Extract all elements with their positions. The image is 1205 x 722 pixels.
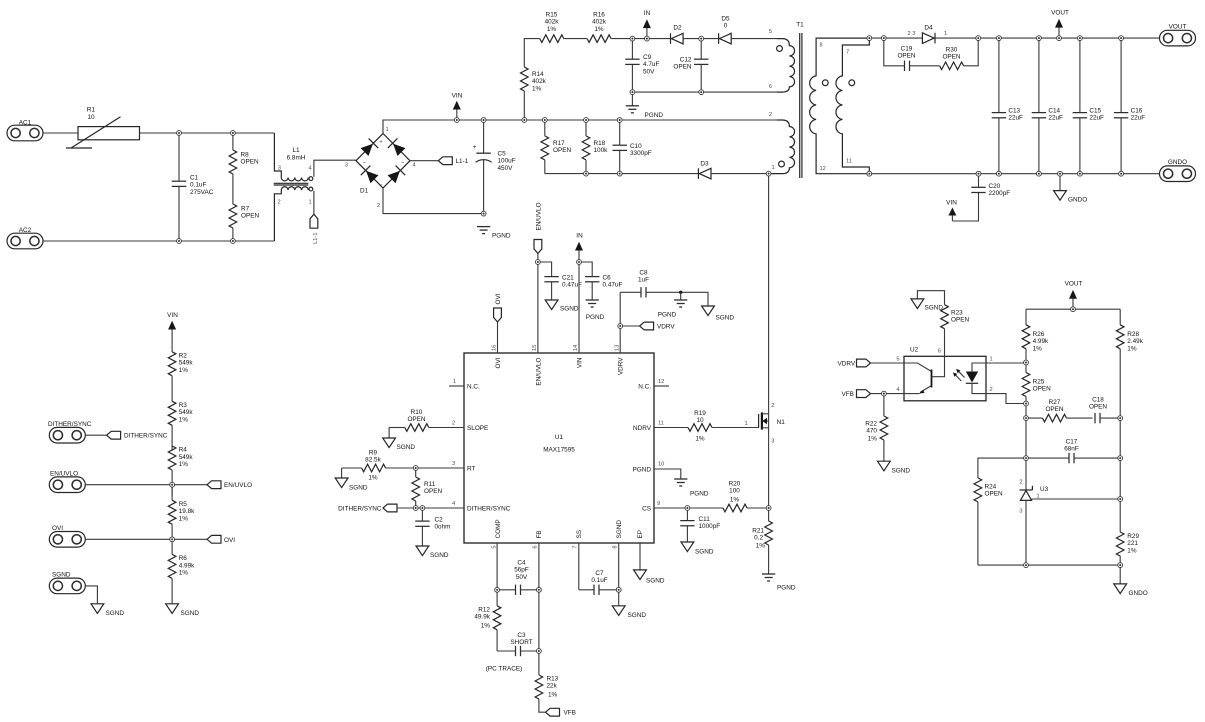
- pin 4 DITHER/SYNC U1: [452, 501, 511, 512]
- ground PGND below C5: [477, 227, 511, 240]
- svg-text:VIN: VIN: [452, 93, 463, 100]
- svg-text:1%: 1%: [695, 436, 705, 443]
- svg-text:6: 6: [938, 349, 941, 355]
- pin 2 SLOPE U1: [452, 421, 488, 432]
- svg-text:R5: R5: [179, 501, 188, 508]
- svg-text:1: 1: [990, 357, 993, 363]
- svg-text:1000pF: 1000pF: [699, 523, 721, 530]
- svg-text:50V: 50V: [516, 574, 528, 581]
- svg-text:C5: C5: [498, 151, 507, 158]
- svg-text:SGND: SGND: [716, 315, 735, 322]
- svg-text:L1: L1: [292, 147, 300, 154]
- resistor R8 OPEN: [229, 133, 259, 204]
- svg-text:1%: 1%: [179, 416, 189, 423]
- pin 16 OVI U1: [492, 345, 503, 369]
- svg-text:R8: R8: [241, 152, 250, 159]
- svg-text:3: 3: [278, 166, 281, 172]
- svg-text:1uF: 1uF: [638, 277, 649, 284]
- svg-text:2: 2: [377, 203, 380, 209]
- svg-text:C21: C21: [562, 275, 574, 282]
- svg-text:C3: C3: [517, 632, 526, 639]
- wire bridge pin2 to PGND rail: [383, 188, 484, 214]
- pin 7 SS U1: [572, 530, 583, 549]
- svg-text:100uF: 100uF: [498, 158, 516, 165]
- resistor R12 49.9k 1%: [474, 590, 501, 651]
- ground SGND below pin8: [612, 606, 646, 619]
- resistor R25 OPEN: [1022, 363, 1051, 419]
- svg-text:VDRV: VDRV: [657, 324, 675, 331]
- svg-text:5: 5: [896, 357, 899, 363]
- svg-text:1%: 1%: [548, 691, 558, 698]
- svg-text:3: 3: [1019, 509, 1022, 515]
- svg-text:1%: 1%: [756, 543, 766, 550]
- resistor R5 19.8k 1%: [168, 485, 195, 540]
- svg-text:N1: N1: [777, 419, 786, 426]
- svg-text:IN: IN: [576, 233, 583, 240]
- wire feedback node down: [1025, 418, 1027, 485]
- svg-text:PGND: PGND: [633, 466, 652, 473]
- svg-text:D2: D2: [673, 25, 682, 32]
- svg-text:R7: R7: [241, 206, 250, 213]
- svg-text:C4: C4: [517, 560, 526, 567]
- svg-text:GNDO: GNDO: [1168, 159, 1187, 166]
- transformer T1 secondary winding inner (pins 7-11): [836, 38, 869, 174]
- power flag IN at startup node: [643, 10, 651, 39]
- svg-text:11: 11: [658, 421, 664, 427]
- pin 6 FB U1: [533, 530, 544, 548]
- svg-text:OPEN: OPEN: [1045, 406, 1063, 413]
- power flag VIN divider top: [167, 312, 178, 352]
- net tag VFB at R13 bottom: [546, 708, 576, 716]
- svg-text:VDRV: VDRV: [838, 361, 856, 368]
- bridge rectifier D1: [345, 127, 416, 209]
- svg-text:4.99k: 4.99k: [1033, 338, 1049, 345]
- svg-text:C13: C13: [1008, 108, 1020, 115]
- svg-text:13: 13: [614, 345, 620, 351]
- svg-text:D4: D4: [924, 25, 933, 32]
- svg-text:82.5k: 82.5k: [365, 457, 381, 464]
- capacitor C7 0.1uF: [579, 570, 619, 595]
- svg-text:0.1uF: 0.1uF: [591, 577, 607, 584]
- svg-text:402k: 402k: [532, 78, 547, 85]
- connector GNDO: [1160, 159, 1196, 182]
- wire VDRV pin13 riser: [619, 292, 621, 353]
- resistor R17 OPEN: [541, 120, 571, 174]
- svg-text:3: 3: [452, 461, 455, 467]
- svg-text:470: 470: [866, 428, 877, 435]
- svg-text:VOUT: VOUT: [1051, 10, 1069, 17]
- svg-text:R1: R1: [87, 107, 96, 114]
- svg-text:SGND: SGND: [695, 549, 714, 556]
- svg-text:OPEN: OPEN: [897, 53, 915, 60]
- svg-text:DITHER/SYNC: DITHER/SYNC: [467, 505, 511, 512]
- wire AC2 to L1 bottom: [43, 240, 274, 242]
- svg-text:C11: C11: [699, 516, 711, 523]
- diode D4: [908, 25, 948, 44]
- capacitor C18 OPEN: [1089, 397, 1120, 424]
- wire SGND pin8 down: [618, 543, 620, 606]
- wire snubber bottom rail: [545, 173, 699, 175]
- capacitor C5 100uF 450V polarized: [473, 120, 516, 214]
- svg-text:R30: R30: [946, 47, 958, 54]
- svg-text:R13: R13: [547, 676, 559, 683]
- svg-text:C1: C1: [190, 175, 199, 182]
- svg-text:68nF: 68nF: [1064, 446, 1079, 453]
- svg-text:10: 10: [87, 114, 95, 121]
- svg-text:OVI: OVI: [52, 525, 63, 532]
- svg-text:R16: R16: [593, 12, 605, 19]
- svg-text:C8: C8: [639, 270, 648, 277]
- transformer T1 primary winding lower (pins 2-1): [769, 112, 795, 174]
- svg-text:MAX17595: MAX17595: [543, 447, 575, 454]
- svg-text:SGND: SGND: [349, 485, 368, 492]
- pin 11 NDRV U1: [633, 421, 664, 432]
- pin 14 VIN U1: [573, 345, 584, 368]
- svg-text:1: 1: [944, 31, 947, 37]
- ground SGND for R9: [335, 468, 368, 492]
- svg-text:OPEN: OPEN: [985, 491, 1003, 498]
- resistor R11 OPEN: [412, 468, 443, 508]
- svg-text:2: 2: [769, 112, 772, 118]
- power flag VIN on input rail: [452, 93, 463, 121]
- svg-text:2: 2: [278, 200, 281, 206]
- svg-text:49.9k: 49.9k: [474, 614, 490, 621]
- capacitor C14 22uF: [1032, 38, 1063, 174]
- capacitor C15 22uF: [1073, 38, 1104, 174]
- svg-text:402k: 402k: [592, 19, 607, 26]
- svg-text:DITHER/SYNC: DITHER/SYNC: [338, 505, 382, 512]
- svg-text:R23: R23: [951, 310, 963, 317]
- pin 10 PGND U1: [633, 462, 665, 474]
- svg-text:SGND: SGND: [616, 520, 623, 539]
- capacitor C10 3300pF: [613, 120, 652, 174]
- svg-text:GNDO: GNDO: [1129, 590, 1148, 597]
- svg-text:2.49k: 2.49k: [1127, 338, 1143, 345]
- svg-text:OVI: OVI: [495, 357, 502, 368]
- svg-text:1%: 1%: [594, 26, 604, 33]
- ground SGND right of C8: [702, 306, 735, 322]
- svg-text:1%: 1%: [1127, 345, 1137, 352]
- svg-text:3: 3: [771, 439, 774, 445]
- svg-text:-: -: [381, 181, 383, 187]
- svg-text:10: 10: [696, 417, 704, 424]
- svg-text:2: 2: [452, 421, 455, 427]
- svg-text:SGND: SGND: [925, 305, 944, 312]
- ground PGND at pin10: [654, 469, 709, 498]
- connector SGND: [49, 572, 85, 594]
- connector OVI: [49, 525, 172, 547]
- svg-text:402k: 402k: [545, 19, 560, 26]
- capacitor C4 56pF 50V: [497, 560, 539, 596]
- pin 15 EN/UVLO U1: [532, 345, 542, 386]
- wire C17 left branch to R24: [978, 458, 1026, 478]
- svg-text:1%: 1%: [179, 570, 189, 577]
- svg-text:1%: 1%: [179, 461, 189, 468]
- wire bridge pin4 to L1-1 tag: [410, 160, 438, 162]
- svg-text:VIN: VIN: [167, 312, 178, 319]
- svg-text:OVI: OVI: [495, 293, 502, 304]
- svg-text:22uF: 22uF: [1048, 115, 1063, 122]
- resistor R4 549k 1%: [168, 446, 193, 496]
- svg-text:2: 2: [771, 403, 774, 409]
- svg-text:C17: C17: [1066, 439, 1078, 446]
- svg-text:VDRV: VDRV: [618, 357, 625, 375]
- svg-text:VFB: VFB: [842, 391, 854, 398]
- resistor R30 OPEN (snubber): [910, 38, 979, 70]
- svg-text:EN/UVLO: EN/UVLO: [535, 202, 542, 230]
- svg-text:PGND: PGND: [777, 585, 796, 592]
- ground SGND below EP: [634, 543, 665, 585]
- svg-text:1%: 1%: [532, 85, 542, 92]
- svg-text:SGND: SGND: [628, 612, 647, 619]
- svg-text:SGND: SGND: [430, 552, 449, 559]
- net tag DITHER/SYNC at pin4: [338, 504, 464, 512]
- svg-text:C7: C7: [595, 570, 604, 577]
- pin 12 N.C. U1: [638, 379, 669, 390]
- capacitor C19 OPEN (snubber): [884, 38, 916, 71]
- svg-text:OPEN: OPEN: [673, 64, 691, 71]
- net tag OVI above pin16: [494, 293, 502, 353]
- svg-text:R3: R3: [179, 402, 188, 409]
- op-amp U1 MAX17595 body: [464, 353, 654, 543]
- svg-text:GNDO: GNDO: [1068, 197, 1087, 204]
- shunt regulator U3 TL431: [1019, 480, 1048, 566]
- svg-text:EP: EP: [637, 530, 644, 539]
- svg-text:SS: SS: [576, 530, 583, 539]
- svg-text:7: 7: [572, 546, 578, 549]
- svg-text:1%: 1%: [368, 475, 378, 482]
- svg-text:IN: IN: [644, 10, 651, 17]
- inductor L1 6.8mH common-mode choke: [274, 133, 313, 241]
- svg-text:8: 8: [820, 43, 823, 49]
- svg-text:1: 1: [745, 421, 748, 427]
- svg-text:SGND: SGND: [646, 578, 665, 585]
- pin 5 COMP U1: [492, 519, 502, 548]
- resistor R6 4.99k 1%: [168, 539, 195, 604]
- svg-text:549k: 549k: [179, 409, 194, 416]
- svg-text:15: 15: [532, 345, 538, 351]
- pin 9 CS U1: [642, 501, 660, 512]
- capacitor C16 22uF: [1114, 38, 1145, 174]
- svg-text:22uF: 22uF: [1089, 115, 1104, 122]
- svg-text:R6: R6: [179, 555, 188, 562]
- svg-text:VIN: VIN: [946, 200, 957, 207]
- transistor inside U2: [904, 356, 945, 393]
- svg-text:1%: 1%: [547, 26, 557, 33]
- connector VOUT: [1160, 24, 1196, 46]
- net tag L1-1 below choke: [310, 214, 319, 244]
- resistor R10 OPEN on SLOPE: [389, 409, 464, 431]
- svg-text:11: 11: [846, 159, 852, 165]
- transformer T1 core: [800, 33, 802, 178]
- svg-text:0.1uF: 0.1uF: [190, 182, 206, 189]
- svg-text:R29: R29: [1127, 533, 1139, 540]
- svg-text:AC1: AC1: [19, 119, 32, 126]
- svg-text:DITHER/SYNC: DITHER/SYNC: [124, 433, 168, 440]
- svg-text:22uF: 22uF: [1008, 115, 1023, 122]
- svg-text:T1: T1: [796, 22, 804, 29]
- svg-text:R12: R12: [478, 607, 490, 614]
- wire D5 to T1 pin5: [731, 38, 777, 40]
- svg-text:PGND: PGND: [645, 112, 664, 119]
- svg-text:N.C.: N.C.: [467, 383, 480, 390]
- svg-text:R25: R25: [1033, 379, 1045, 386]
- svg-text:EN/UVLO: EN/UVLO: [50, 471, 78, 478]
- capacitor C3 SHORT: [497, 632, 539, 656]
- svg-text:OPEN: OPEN: [553, 147, 571, 154]
- power flag VOUT feedback rail: [1026, 281, 1120, 310]
- svg-text:VFB: VFB: [564, 710, 576, 717]
- svg-text:4: 4: [452, 501, 455, 507]
- power flag IN above pin14: [575, 233, 583, 354]
- svg-text:6.8mH: 6.8mH: [287, 154, 306, 161]
- svg-text:3: 3: [345, 163, 348, 169]
- svg-text:1%: 1%: [179, 515, 189, 522]
- svg-text:2 3: 2 3: [908, 31, 916, 37]
- resistor R9 82.5k 1% on RT: [342, 450, 464, 482]
- svg-text:12: 12: [820, 166, 826, 172]
- ground PGND below C6: [586, 300, 605, 321]
- svg-text:C14: C14: [1048, 108, 1060, 115]
- capacitor C21 0.47uF: [538, 262, 582, 300]
- svg-text:1: 1: [772, 165, 775, 171]
- resistor R18 100k: [582, 120, 608, 174]
- wire L1 pin1 to tag: [313, 191, 315, 214]
- wire bridge pin1 to VIN rail: [383, 120, 777, 134]
- net tag VDRV to U2 pin5: [838, 359, 905, 367]
- svg-text:549k: 549k: [179, 360, 194, 367]
- wire L1 pin4 to bridge: [314, 160, 356, 177]
- wire U2 pin2 to divider: [986, 394, 1026, 404]
- svg-text:1%: 1%: [481, 622, 491, 629]
- wire secondary top rail: [869, 37, 922, 39]
- pin 8 SGND U1: [612, 520, 623, 549]
- transistor N1 nMOSFET: [759, 403, 786, 445]
- svg-text:R24: R24: [985, 484, 997, 491]
- net tag VDRV at pin13: [620, 322, 675, 330]
- net tag OVI divider: [172, 535, 235, 543]
- svg-text:SGND: SGND: [892, 468, 911, 475]
- svg-text:4: 4: [896, 387, 899, 393]
- net tag VFB to U2 pin4: [842, 390, 905, 398]
- svg-text:450V: 450V: [498, 165, 514, 172]
- svg-text:8: 8: [612, 546, 618, 549]
- svg-text:1: 1: [453, 379, 456, 385]
- resistor R19 10 1% on NDRV: [654, 410, 759, 443]
- svg-text:16: 16: [492, 345, 498, 351]
- svg-text:OPEN: OPEN: [407, 416, 425, 423]
- svg-text:R4: R4: [179, 447, 188, 454]
- resistor R7 OPEN: [229, 204, 259, 241]
- svg-text:R21: R21: [752, 528, 764, 535]
- capacitor C12 OPEN: [673, 39, 708, 93]
- svg-text:1%: 1%: [1127, 547, 1137, 554]
- svg-text:OPEN: OPEN: [1089, 404, 1107, 411]
- connector EN/UVLO: [49, 471, 172, 493]
- pin 1 N.C. U1: [449, 379, 480, 390]
- svg-text:R14: R14: [532, 71, 544, 78]
- svg-text:22k: 22k: [547, 683, 558, 690]
- svg-text:+: +: [473, 144, 477, 151]
- svg-text:6: 6: [533, 546, 539, 549]
- pin 13 VDRV U1: [614, 345, 624, 375]
- wire junction markers overlay: [170, 36, 1124, 654]
- svg-text:R11: R11: [424, 481, 436, 488]
- svg-text:SHORT: SHORT: [510, 639, 532, 646]
- capacitor C1 0.1uF 275VAC: [172, 133, 214, 241]
- capacitor C9 4.7uF 50V: [625, 39, 659, 93]
- wire SS pin7 down: [578, 543, 580, 590]
- wire C9/C12 bottom to T1 pin6: [632, 91, 777, 93]
- svg-text:549k: 549k: [179, 454, 194, 461]
- resistor R24 OPEN: [974, 478, 1003, 565]
- svg-text:22uF: 22uF: [1131, 115, 1146, 122]
- wire CS pin9: [654, 507, 723, 509]
- svg-text:SGND: SGND: [52, 572, 71, 579]
- svg-text:7: 7: [846, 50, 849, 56]
- svg-text:4: 4: [309, 166, 312, 172]
- LED light arrows U2: [953, 369, 965, 381]
- diode D2: [671, 25, 684, 44]
- svg-text:1%: 1%: [179, 367, 189, 374]
- resistor R15 402k 1%: [540, 12, 564, 43]
- resistor R28 2.49k 1%: [1116, 309, 1143, 532]
- wire U2 pin1 to R26 bottom: [986, 362, 1026, 364]
- power flag VIN at C20 return: [946, 200, 957, 222]
- svg-text:C18: C18: [1092, 397, 1104, 404]
- svg-text:2: 2: [1019, 480, 1022, 486]
- svg-text:PGND: PGND: [586, 314, 605, 321]
- resistor R3 549k 1%: [168, 401, 193, 451]
- svg-text:50V: 50V: [643, 68, 655, 75]
- svg-text:D5: D5: [721, 16, 730, 23]
- svg-text:(PC TRACE): (PC TRACE): [486, 666, 522, 673]
- ground GNDO feedback: [1114, 565, 1148, 597]
- wire FB pin6 down: [538, 543, 540, 675]
- svg-text:CS: CS: [642, 505, 651, 512]
- svg-text:R20: R20: [729, 481, 741, 488]
- svg-text:C10: C10: [630, 143, 642, 150]
- svg-text:R15: R15: [546, 12, 558, 19]
- svg-text:C16: C16: [1131, 108, 1143, 115]
- wire secondary bottom rail: [869, 173, 1159, 175]
- wire R16 to D2: [611, 38, 670, 40]
- svg-text:OPEN: OPEN: [942, 54, 960, 61]
- svg-text:RT: RT: [467, 465, 475, 472]
- ground PGND tap on C8 wire: [658, 291, 688, 319]
- svg-text:1: 1: [309, 200, 312, 206]
- svg-text:100: 100: [729, 488, 740, 495]
- wire AC1 to R1: [43, 132, 78, 134]
- diode D5 0: [719, 16, 732, 44]
- svg-text:EN/UVLO: EN/UVLO: [224, 482, 252, 489]
- svg-text:6: 6: [769, 84, 772, 90]
- svg-text:VOUT: VOUT: [1065, 281, 1083, 288]
- LED inside U2: [966, 363, 986, 394]
- svg-text:0.47uF: 0.47uF: [603, 282, 623, 289]
- connector AC2: [7, 227, 43, 249]
- svg-text:10: 10: [658, 462, 664, 468]
- svg-text:OPEN: OPEN: [424, 488, 442, 495]
- svg-text:R10: R10: [411, 409, 423, 416]
- resistor R27 OPEN: [1026, 399, 1093, 422]
- svg-text:C2: C2: [435, 517, 444, 524]
- svg-text:14: 14: [573, 345, 579, 351]
- resistor R14 402k 1%: [521, 39, 547, 120]
- svg-text:VIN: VIN: [577, 357, 584, 368]
- net tag DITHER/SYNC connector: [85, 431, 167, 439]
- svg-text:0.2: 0.2: [754, 535, 763, 542]
